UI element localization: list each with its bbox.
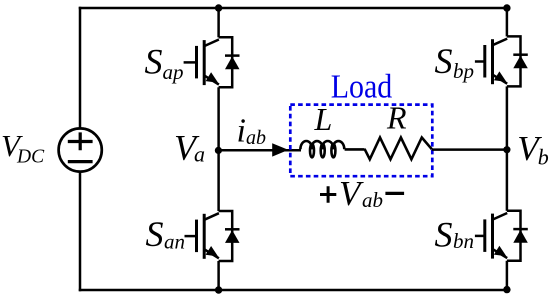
svg-text:S: S <box>435 214 453 254</box>
wire node Va to load <box>219 149 301 152</box>
svg-text:ab: ab <box>246 127 266 149</box>
wire S_ap gate lead <box>184 61 197 64</box>
svg-text:Load: Load <box>331 69 393 106</box>
svg-text:S: S <box>435 41 453 81</box>
node bottom right junction dot <box>503 286 510 293</box>
label V_DC <box>1 128 45 168</box>
svg-text:ap: ap <box>163 60 184 84</box>
wire top rail <box>80 7 507 10</box>
load dashed box <box>290 105 432 177</box>
wire S_bn emitter to bottom rail <box>506 261 509 290</box>
node top left junction dot <box>215 4 222 11</box>
wire inductor to resistor <box>345 148 365 151</box>
svg-text:a: a <box>194 142 205 167</box>
wire left rail lower <box>79 172 82 290</box>
label V_a <box>174 128 205 168</box>
svg-text:DC: DC <box>16 147 45 168</box>
svg-text:V: V <box>339 174 364 213</box>
wire S_bp emitter to node Vb <box>506 86 509 149</box>
wire node Va to S_an <box>217 150 220 211</box>
node top right junction dot <box>503 4 510 11</box>
svg-text:an: an <box>164 230 185 254</box>
wire S_an gate lead <box>185 235 197 238</box>
transistor S_bn <box>485 211 528 261</box>
transistor S_an <box>197 211 240 261</box>
wire S_an emitter to bottom rail <box>217 261 220 290</box>
node Va dot <box>215 147 222 154</box>
node bottom left junction dot <box>215 286 222 293</box>
label i_ab <box>237 113 267 150</box>
wire S_ap collector <box>217 8 220 37</box>
label S_bn <box>435 214 475 254</box>
label S_an <box>146 214 186 254</box>
svg-text:L: L <box>314 101 333 137</box>
dc source plus sign <box>68 132 93 150</box>
dc source V_DC circle <box>59 128 102 171</box>
wire S_bp gate lead <box>475 60 485 63</box>
svg-text:ab: ab <box>362 188 383 212</box>
wire bottom rail <box>80 289 507 292</box>
label V_b <box>517 129 549 170</box>
wire S_bp collector <box>506 8 509 36</box>
svg-text:R: R <box>386 100 407 136</box>
wire S_ap emitter to node Va <box>217 87 220 150</box>
current arrow i_ab <box>272 143 288 156</box>
label +V_ab- voltage marking <box>320 174 404 213</box>
wire left rail upper <box>79 8 82 128</box>
svg-text:S: S <box>145 42 163 82</box>
svg-text:i: i <box>237 113 246 150</box>
transistor S_ap <box>197 37 240 87</box>
transistor S_bp <box>485 36 528 86</box>
inductor L coil <box>300 141 344 157</box>
dc source minus sign <box>68 160 93 163</box>
node Vb dot <box>503 146 510 153</box>
label S_ap <box>145 42 184 84</box>
svg-text:bn: bn <box>453 229 474 253</box>
wire load to node Vb <box>432 148 507 151</box>
label S_bp <box>435 41 475 83</box>
svg-text:b: b <box>538 145 549 170</box>
svg-text:S: S <box>146 214 164 254</box>
svg-text:bp: bp <box>453 59 474 83</box>
wire S_bn gate lead <box>475 235 485 238</box>
wire node Vb to S_bn <box>506 150 509 211</box>
resistor R zigzag <box>365 138 432 160</box>
